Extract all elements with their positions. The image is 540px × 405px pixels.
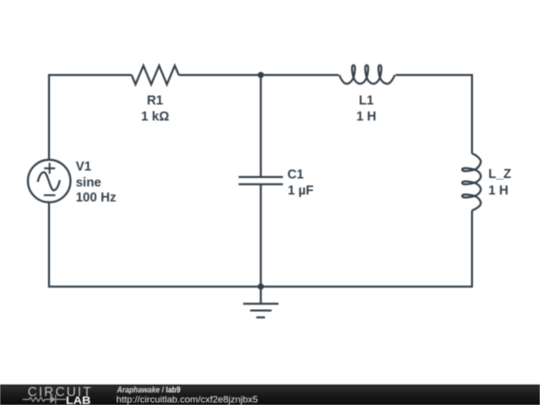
wire [260,184,262,286]
wire [179,74,339,76]
svg-text:V1: V1 [76,159,92,174]
svg-text:LAB: LAB [66,395,91,405]
svg-text:sine: sine [76,175,102,190]
node B (ground junction) [258,284,264,290]
svg-text:1 kΩ: 1 kΩ [141,109,169,124]
svg-text:R1: R1 [147,92,163,107]
svg-text:C1: C1 [287,166,303,181]
wire [49,202,472,286]
node A (top junction) [258,72,264,78]
logo diode triangle [50,395,55,403]
svg-text:1 µF: 1 µF [288,183,314,198]
svg-text:100 Hz: 100 Hz [76,190,117,205]
svg-text:1 H: 1 H [488,183,508,198]
svg-text:http://circuitlab.com/cxf2e8jz: http://circuitlab.com/cxf2e8jznjbx5 [116,394,258,405]
wire [396,75,473,154]
wire [260,75,262,177]
capacitor C1 [239,177,283,184]
voltage source V1 [28,160,71,203]
inductor L1 [339,65,394,84]
ground [243,287,278,318]
svg-text:1 H: 1 H [356,109,376,124]
svg-text:L_Z: L_Z [488,166,511,181]
inductor L_Z [462,153,481,210]
logo circuit glyph wire with resistor [23,395,66,404]
resistor R1 [132,66,179,85]
svg-text:L1: L1 [359,92,374,107]
wire [49,75,132,160]
